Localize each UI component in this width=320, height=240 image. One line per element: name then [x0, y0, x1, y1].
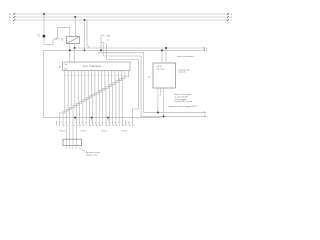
wire rtc pin1 to line A — [157, 96, 159, 112]
wire rtc vcc pin — [165, 48, 167, 63]
terminal output +5V right — [204, 47, 205, 49]
display cable wires — [65, 126, 67, 146]
svg-text:С: С — [63, 125, 64, 127]
node junction on rail L — [43, 13, 45, 15]
svg-text:подключение реле и нагрузок 22: подключение реле и нагрузок 220 В — [169, 106, 198, 108]
svg-text:2: 2 — [207, 116, 208, 118]
svg-text:SB1: SB1 — [107, 36, 110, 38]
svg-text:Дисплей в сборе: Дисплей в сборе — [86, 151, 100, 154]
svg-text:Р: Р — [106, 125, 107, 127]
connector X1 fork row — [56, 121, 58, 122]
wire SB1 signal A — [103, 43, 204, 116]
svg-text:+: + — [76, 45, 77, 47]
terminal output 0V right — [204, 49, 205, 51]
wire controller output fan — [60, 73, 65, 120]
svg-text:A1: A1 — [59, 65, 61, 68]
svg-text:БЛОК УПРАВЛЕНИЯ: БЛОК УПРАВЛЕНИЯ — [83, 65, 102, 68]
svg-text:14: 14 — [107, 40, 109, 42]
display callout — [79, 148, 85, 151]
svg-text:QF1: QF1 — [55, 38, 59, 40]
terminal right A — [204, 111, 205, 113]
svg-text:час. врем.: час. врем. — [157, 69, 166, 71]
svg-text:1 щит на автоматике: 1 щит на автоматике — [177, 56, 194, 58]
wire PSU- pin to controller — [69, 44, 71, 62]
wire terminal to switch — [44, 37, 53, 44]
node junction rtc vcc — [165, 47, 167, 49]
svg-text:U1: U1 — [148, 77, 150, 79]
wire rail PE (bottom supply rail) — [14, 19, 228, 21]
svg-text:Реле 1: Реле 1 — [60, 130, 66, 132]
node junction rtc pin3 — [163, 115, 165, 117]
node junction rail N — [74, 16, 76, 18]
node junction PSU+ tap — [74, 47, 76, 49]
wire rail L (top supply rail) — [14, 13, 228, 15]
terminal right B — [205, 115, 206, 117]
wire rtc gnd pin — [161, 50, 163, 63]
wire rail PE to 0V bus — [84, 20, 86, 50]
switch QF1 contact — [53, 38, 58, 40]
svg-text:1: 1 — [39, 37, 40, 39]
svg-text:С: С — [129, 125, 130, 127]
pushbutton SB1 body — [101, 36, 105, 43]
svg-text:С: С — [80, 125, 81, 127]
svg-text:точности: точности — [179, 72, 186, 74]
svg-text:Реле 2: Реле 2 — [81, 130, 87, 132]
controller A1 bottom pins — [64, 71, 66, 74]
svg-text:1: 1 — [206, 112, 207, 114]
node junction SB1 on 0V bus — [100, 49, 102, 51]
wire drop from rail L to terminal — [43, 14, 45, 35]
display connector box — [63, 139, 82, 146]
svg-text:(модуль LCD): (модуль LCD) — [86, 155, 98, 157]
wire sense line — [98, 53, 204, 113]
wire rail N to PSU — [74, 17, 76, 37]
wire SB1 signal B — [106, 43, 138, 120]
svg-text:Р: Р — [73, 125, 74, 127]
power supply G1 box — [67, 37, 80, 44]
svg-text:Вых.: Вых. — [64, 69, 68, 71]
node junction rtc gnd — [161, 49, 163, 51]
svg-text:1: 1 — [206, 48, 207, 50]
node junction return tap 3 — [107, 117, 109, 119]
wire +5V bus — [75, 44, 204, 48]
wire +5V feed to controller — [74, 48, 76, 62]
wire second PE drop — [87, 20, 89, 48]
wire rtc pin3 to line B — [163, 96, 165, 116]
svg-text:~: ~ — [71, 35, 72, 37]
controller A1 pin numbers — [64, 74, 66, 76]
node junction PSU- on 0V bus — [69, 49, 71, 51]
wire tap verticals — [74, 118, 76, 121]
node junction rail PE — [84, 19, 86, 21]
terminal XS1 — [43, 35, 46, 38]
node junction PE to 0V bus — [84, 49, 86, 51]
svg-text:~: ~ — [77, 35, 78, 37]
svg-text:Р: Р — [123, 125, 124, 127]
svg-text:2: 2 — [206, 51, 207, 53]
svg-text:разъёмы ПВС по всем: разъёмы ПВС по всем — [175, 101, 193, 103]
wire 0V return left — [44, 50, 163, 117]
svg-text:Реле 4: Реле 4 — [122, 130, 128, 132]
rtc U1 box — [153, 63, 176, 88]
svg-text:С: С — [113, 125, 114, 127]
rtc bottom pins — [157, 88, 159, 93]
wire rail N (middle supply rail) — [14, 16, 228, 18]
svg-text:С: С — [96, 125, 97, 127]
node junction return tap 2 — [91, 117, 93, 119]
wire 0V bus — [44, 49, 204, 51]
svg-text:Р: Р — [90, 125, 91, 127]
power supply G1 diagonal — [67, 37, 80, 44]
controller A1 box — [63, 62, 131, 71]
wire SB1 to 0V bus — [100, 43, 102, 51]
node junction return tap 1 — [74, 117, 76, 119]
wire switch to PSU input — [58, 27, 70, 38]
svg-text:Реле 3: Реле 3 — [101, 130, 107, 132]
node junction rtc pin1 — [157, 111, 159, 113]
